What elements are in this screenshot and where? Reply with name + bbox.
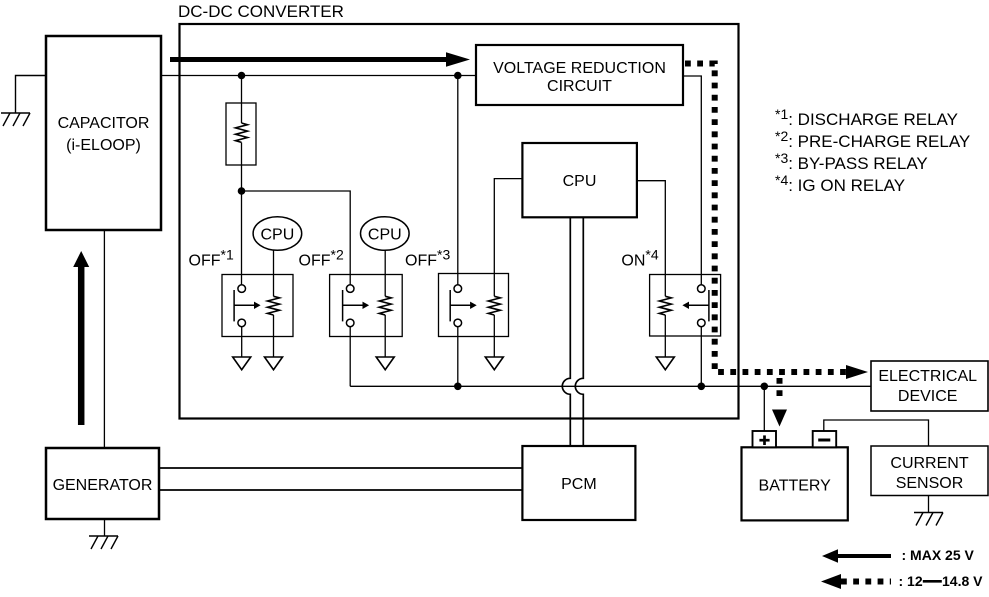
voltage reduction circuit box [476,45,683,105]
CPU box [522,143,637,217]
svg-text:*2: PRE-CHARGE RELAY: *2: PRE-CHARGE RELAY [775,128,970,151]
wire junction C down to relay1 switch [241,191,243,285]
svg-text:GENERATOR: GENERATOR [53,477,153,494]
relay K2 pre-charge relay [330,275,403,387]
svg-text:ELECTRICAL: ELECTRICAL [878,368,977,385]
wire CPU box to relay3 coil [494,179,522,297]
notes *1..*4 [775,106,970,195]
CPU oval U1 [253,217,302,251]
svg-text:14.8 V: 14.8 V [942,573,983,589]
relay K4 IG ON relay (mirrored) [650,275,721,387]
battery minus terminal [813,431,837,447]
arrowhead dashed to electrical device [846,365,868,379]
wire VRC right to relay4 switch [683,76,701,285]
thick arrow capacitor to voltage reduction circuit (MAX 25 V) [170,52,470,67]
relay K3 by-pass relay [439,274,509,387]
svg-text:CPU: CPU [563,173,597,190]
svg-text:CPU: CPU [261,227,295,244]
ground current sensor [914,513,943,526]
bus wire relay2/3/4 to electrical device [350,385,871,387]
svg-text:BATTERY: BATTERY [759,478,832,495]
wire generator to PCM lower [159,489,522,491]
wire CPU oval U1 to relay1 coil [273,250,275,296]
battery box [742,447,848,520]
arrow terminal under relay K2 coil [376,357,394,370]
wire node B down to relay3 switch [457,76,459,285]
legend solid arrow MAX 25 V [822,547,975,563]
wire capacitor bottom to generator [103,230,105,448]
svg-text:DC-DC CONVERTER: DC-DC CONVERTER [178,2,344,21]
node junction dot C [238,187,246,195]
dashed wire VRC to electrical device (12-14.8 V) [685,64,846,373]
DC-DC converter box [178,2,739,419]
generator box [46,448,159,519]
wire ground to capacitor left [16,76,47,114]
CPU oval U2 [361,217,410,251]
svg-text:*4: IG ON RELAY: *4: IG ON RELAY [775,172,905,195]
arrow terminal under relay K4 coil [656,357,674,370]
arrow terminal under relay K1 switch [233,357,251,370]
capacitor C (i-ELOOP) box [46,36,161,230]
arrow terminal under relay K1 coil [265,357,283,370]
relay K1 discharge relay [222,275,293,358]
dashed wire branch down to battery [777,378,783,399]
node junction dot D [454,383,462,391]
wire CPU oval U2 to relay2 coil [384,250,386,296]
svg-text:: MAX 25 V: : MAX 25 V [902,547,975,563]
wire battery minus to current sensor [824,420,929,446]
node junction dot B [454,72,462,80]
wire node F down to battery plus terminal [763,386,765,431]
wire current sensor to ground [928,496,930,513]
legend dashed arrow 12-14.8 V [821,573,983,589]
svg-text:SENSOR: SENSOR [896,475,964,492]
wire CPU to PCM line 2 with hop [575,217,583,446]
arrowhead dashed to battery [772,410,787,427]
wire CPU to PCM line 1 with hop [562,217,570,446]
svg-text:(i-ELOOP): (i-ELOOP) [66,137,141,154]
svg-text:*3: BY-PASS RELAY: *3: BY-PASS RELAY [775,150,928,173]
thick arrow generator to capacitor [73,251,89,425]
svg-text:VOLTAGE REDUCTION: VOLTAGE REDUCTION [493,60,666,77]
wire generator to PCM upper [159,467,522,469]
wire capacitor right to voltage reduction circuit [161,75,476,77]
node junction dot E [698,383,706,391]
battery plus terminal [753,431,777,447]
svg-text:CPU: CPU [368,227,402,244]
wire CPU box to relay4 coil [637,181,665,297]
node junction dot A [238,72,246,80]
ground generator [89,536,118,549]
arrow terminal under relay K3 coil [485,357,503,370]
svg-text:CURRENT: CURRENT [890,455,968,472]
current sensor box [871,446,988,496]
resistor R-top (pre-charge resistor) [226,76,256,192]
PCM box [522,446,635,520]
electrical device box [871,361,988,411]
svg-text:*1: DISCHARGE RELAY: *1: DISCHARGE RELAY [775,106,958,129]
svg-text:CAPACITOR: CAPACITOR [58,115,150,132]
ground top-left [1,113,30,126]
svg-text:: 12: : 12 [899,573,923,589]
node junction dot F [761,383,769,391]
wire generator to ground [104,519,106,536]
svg-text:PCM: PCM [561,476,597,493]
svg-text:DEVICE: DEVICE [898,388,958,405]
svg-text:CIRCUIT: CIRCUIT [547,78,612,95]
wire junction C to relay2 switch [242,191,351,285]
